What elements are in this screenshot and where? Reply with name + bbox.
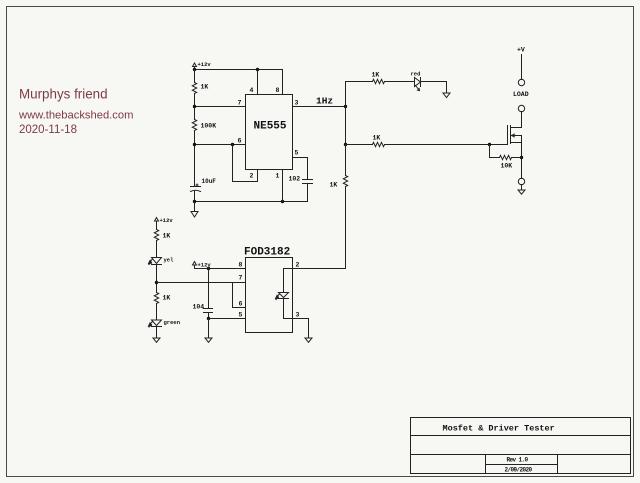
svg-text:Mosfet & Driver Tester: Mosfet & Driver Tester <box>443 424 555 434</box>
svg-text:7: 7 <box>239 275 243 282</box>
svg-text:NE555: NE555 <box>254 121 287 133</box>
wire cap102 top <box>307 158 309 180</box>
svg-text:FOD3182: FOD3182 <box>244 247 290 259</box>
wire red branch seg3 <box>421 82 447 93</box>
capacitor C2 102 <box>303 180 313 184</box>
wire LED chain seg1 <box>156 223 158 230</box>
wire pin3 rail down <box>345 107 347 145</box>
wire pin4 drop <box>257 70 259 95</box>
svg-text:+V: +V <box>517 46 525 53</box>
title block outer rect <box>411 418 631 474</box>
ground G4 <box>205 338 212 342</box>
wire pin2 loop <box>233 145 258 182</box>
LED D4 optocoupler internal <box>276 269 289 319</box>
wire +V stub <box>521 55 523 80</box>
resistor R3 1K <box>373 79 385 83</box>
svg-text:6: 6 <box>238 138 242 145</box>
ground G6 <box>518 185 525 195</box>
svg-text:1K: 1K <box>373 135 381 142</box>
resistor R4 1K <box>373 142 385 146</box>
resistor R5 10K <box>500 155 512 159</box>
terminal circle source <box>518 178 524 184</box>
wire rail x=345 down to FOD <box>345 145 347 175</box>
svg-text:Murphys friend: Murphys friend <box>19 87 108 102</box>
junction at 194,69 <box>193 68 196 71</box>
svg-text:1K: 1K <box>372 72 380 79</box>
wire cap104 top <box>208 269 210 309</box>
wire left rail seg2 <box>194 94 196 120</box>
wire left rail seg1 <box>194 70 196 83</box>
ground G2 <box>443 93 450 98</box>
svg-text:100K: 100K <box>201 123 217 130</box>
title block divider 2 <box>411 454 631 456</box>
svg-text:8: 8 <box>239 262 243 269</box>
LED D2 yel <box>149 258 162 265</box>
junction at 232,144 <box>231 143 234 146</box>
resistor R8 1K <box>154 293 158 304</box>
svg-text:4: 4 <box>250 87 254 94</box>
junction at 257,69 <box>256 68 259 71</box>
svg-text:Rev 1.0: Rev 1.0 <box>507 457 529 464</box>
svg-text:1K: 1K <box>201 84 209 91</box>
wire pin6 <box>195 144 246 146</box>
op-amp U1 NE555 box <box>246 95 293 170</box>
wire rail x=345 up <box>345 82 347 107</box>
wire pin3 out <box>293 106 346 108</box>
junction at 208,318 <box>207 317 210 320</box>
svg-text:3: 3 <box>296 312 300 319</box>
LED D3 green <box>149 320 162 327</box>
op-amp U2 FOD3182 box <box>246 258 293 333</box>
wire LED chain seg3 <box>156 265 158 293</box>
svg-text:8: 8 <box>276 87 280 94</box>
svg-text:+12v: +12v <box>198 61 212 68</box>
ground G5 <box>305 338 312 342</box>
svg-text:2/09/2020: 2/09/2020 <box>505 467 533 474</box>
wire cap102 bottom <box>307 184 309 202</box>
wire pin7 FOD <box>157 282 246 284</box>
junction at 282,201 <box>281 200 284 203</box>
junction at 208,268 <box>207 267 210 270</box>
wire pin8 drop <box>282 70 284 95</box>
resistor R2 100K <box>192 120 196 131</box>
wire rail x=345 to pin2 <box>284 188 346 269</box>
wire pin7 to pin6 link <box>233 283 246 308</box>
svg-text:www.thebackshed.com: www.thebackshed.com <box>18 110 133 122</box>
capacitor C3 104 <box>204 309 213 313</box>
ground G1 <box>191 202 198 218</box>
svg-text:2020-11-18: 2020-11-18 <box>19 124 77 136</box>
wire LED chain seg5 <box>156 327 158 339</box>
svg-text:LOAD: LOAD <box>513 91 529 98</box>
wire pin3 out <box>284 319 309 339</box>
resistor R6 1K <box>343 175 347 188</box>
svg-text:1K: 1K <box>330 182 338 189</box>
junction at 345,144 <box>344 143 347 146</box>
resistor R7 1K <box>154 230 158 241</box>
title block divider 3 <box>486 464 558 466</box>
capacitor C1 10uF <box>191 184 201 192</box>
power +12V symbol P1 (555 supply) <box>193 63 197 70</box>
svg-text:7: 7 <box>238 100 242 107</box>
svg-text:green: green <box>164 319 181 326</box>
svg-text:1: 1 <box>276 173 280 180</box>
wire pin8 FOD <box>195 268 246 270</box>
junction at 156,282 <box>155 281 158 284</box>
wire gate branch seg1 <box>346 144 373 146</box>
resistor R1 1K <box>192 83 196 94</box>
wire gate branch seg2 <box>385 144 508 146</box>
wire red branch seg1 <box>346 81 373 83</box>
wire source down <box>521 136 523 179</box>
wire 10K right leg <box>512 157 522 159</box>
terminal circle LOAD bottom <box>518 105 524 111</box>
svg-text:+12v: +12v <box>160 217 174 224</box>
junction at 345,106 <box>344 105 347 108</box>
junction at 194,106 <box>193 105 196 108</box>
wire cap to ground rail <box>194 191 196 202</box>
power +12V symbol P2 (LED chain) <box>155 218 159 230</box>
svg-text:2: 2 <box>296 262 300 269</box>
junction at 489,144 <box>488 143 491 146</box>
svg-text:1K: 1K <box>163 233 171 240</box>
wire cap104 bottom <box>208 313 210 319</box>
svg-text:yel: yel <box>164 257 175 264</box>
wire pin1 drop <box>282 170 284 202</box>
wire cap104 ground stub <box>208 319 210 339</box>
wire 10K left leg <box>490 145 500 158</box>
wire top rail y=68 <box>195 69 283 71</box>
wire pin5 FOD <box>209 318 246 320</box>
transistor Q1 mosfet <box>508 126 522 145</box>
wire LED chain seg4 <box>156 304 158 321</box>
wire ground rail y=201 <box>195 201 308 203</box>
svg-text:5: 5 <box>295 150 299 157</box>
svg-text:red: red <box>411 71 421 78</box>
svg-text:10uF: 10uF <box>202 178 217 185</box>
svg-text:104: 104 <box>193 304 205 311</box>
junction at 194,144 <box>193 143 196 146</box>
wire pin5 <box>293 157 308 159</box>
LED D1 red <box>415 78 421 91</box>
svg-text:1Hz: 1Hz <box>316 96 333 107</box>
title block vertical b <box>557 455 559 474</box>
wire drain up <box>521 112 523 128</box>
power +12V symbol P3 (FOD supply) <box>193 262 197 269</box>
wire pin7 <box>195 106 246 108</box>
junction at 521,157 <box>520 156 523 159</box>
ground G3 <box>153 338 160 342</box>
svg-text:102: 102 <box>289 176 301 183</box>
junction at 194,201 <box>193 200 196 203</box>
wire left rail seg3 <box>194 131 196 187</box>
terminal circle LOAD top <box>518 79 524 85</box>
svg-text:10K: 10K <box>501 163 513 170</box>
wire red branch seg2 <box>385 81 415 83</box>
title block divider 1 <box>411 435 631 437</box>
svg-text:6: 6 <box>239 301 243 308</box>
svg-text:1K: 1K <box>163 295 171 302</box>
wire LED chain seg2 <box>156 241 158 258</box>
title block vertical a <box>485 455 487 474</box>
svg-text:3: 3 <box>295 100 299 107</box>
svg-text:2: 2 <box>250 173 254 180</box>
svg-text:5: 5 <box>239 312 243 319</box>
